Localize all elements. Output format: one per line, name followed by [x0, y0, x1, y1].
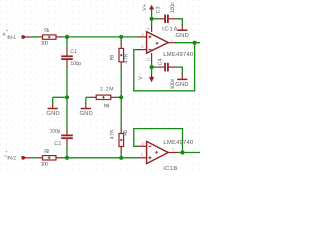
wire R4 left to gnd2 — [86, 96, 91, 98]
pin dot IN-1 — [21, 35, 25, 39]
junction V+ node — [150, 17, 154, 21]
wire IN-2 to R2 — [32, 157, 39, 159]
capacitor C2 pins — [66, 129, 68, 134]
svg-text:LME49740: LME49740 — [163, 51, 194, 58]
op-amp IC1A pin4 — [151, 25, 153, 32]
svg-text:100p: 100p — [70, 61, 81, 67]
wire V- node to C4 — [152, 66, 158, 68]
svg-text:GND: GND — [176, 32, 189, 39]
svg-text:IN-2: IN-2 — [7, 156, 16, 162]
wires green group — [32, 12, 200, 158]
op-amp IC1A pin1 — [168, 42, 175, 44]
junction gnd rail — [65, 95, 69, 99]
resistor R2 pins — [38, 157, 42, 159]
pin dot IN-2 — [21, 156, 25, 160]
pin IN-2 — [23, 157, 32, 159]
V+ stub — [151, 9, 153, 12]
wire gnd rail left — [53, 96, 67, 98]
svg-text:47K: 47K — [124, 53, 130, 64]
ground gnd1 bar — [48, 108, 58, 110]
svg-text:LME49740: LME49740 — [163, 139, 194, 146]
wire R3 top pin — [120, 37, 122, 41]
svg-text:IC1A: IC1A — [162, 25, 177, 32]
junction R4 node — [119, 95, 123, 99]
wire gnd2 stub — [85, 97, 87, 104]
svg-text:100: 100 — [41, 41, 48, 47]
svg-text:100n: 100n — [170, 2, 176, 13]
wire rail node down to C2 — [66, 97, 68, 129]
wire node A down to C1 — [66, 37, 68, 48]
resistor R5 — [119, 134, 124, 147]
resistor R5 pins — [120, 128, 122, 133]
svg-text:R4: R4 — [104, 104, 110, 110]
svg-text:47K: 47K — [109, 129, 115, 140]
capacitor C2 — [61, 135, 73, 140]
svg-text:C3: C3 — [156, 6, 162, 13]
capacitor C3 pins — [159, 18, 164, 20]
pin IN-1 — [23, 36, 32, 38]
junction V- node — [150, 65, 154, 69]
svg-text:V+: V+ — [142, 4, 148, 11]
svg-text:GND: GND — [175, 81, 188, 88]
ground gnd4 bar — [177, 78, 187, 80]
wire IN-1 to R1 — [32, 36, 39, 38]
junction output B — [180, 150, 184, 154]
svg-text:R3: R3 — [110, 55, 116, 61]
resistor R3 pins — [120, 41, 122, 49]
svg-text:C2: C2 — [54, 141, 61, 147]
resistor R1 — [43, 35, 57, 39]
wire C1 bottom to gnd rail node — [66, 66, 68, 97]
svg-text:C1: C1 — [70, 49, 77, 55]
junction node A — [65, 35, 69, 39]
svg-text:100: 100 — [41, 162, 48, 168]
gnd2 stub — [85, 103, 87, 107]
junction R3 top — [119, 35, 123, 39]
supply V- symbol — [149, 77, 154, 83]
svg-text:100p: 100p — [50, 129, 61, 135]
gnd4 stub — [181, 74, 183, 79]
resistor R3 — [119, 48, 124, 62]
junction node B — [65, 156, 69, 160]
wire R4 right pin — [117, 96, 121, 98]
wire output A — [175, 42, 200, 44]
supply V+ symbol — [149, 5, 154, 10]
svg-text:V-: V- — [138, 74, 144, 80]
capacitor C1 — [61, 55, 73, 60]
svg-text:C4: C4 — [158, 58, 164, 65]
capacitor C4 — [164, 63, 169, 72]
wire V+ node to C3 — [152, 18, 160, 20]
op-amp IC1A pin2 — [137, 49, 147, 51]
svg-text:IC1B: IC1B — [163, 165, 177, 172]
wire gnd1 stub — [52, 97, 54, 104]
wire pin11 to V- node — [151, 61, 153, 67]
op-amp U IC1A — [147, 32, 169, 54]
wire C4 right to gnd4 — [176, 67, 182, 74]
svg-text:R5: R5 — [123, 130, 129, 136]
wire feedback B from pin6 — [134, 129, 183, 153]
wire C2 bottom to node B — [66, 146, 68, 158]
capacitor C4 pins — [158, 66, 165, 68]
junction output A — [193, 41, 197, 45]
op-amp IC1A pin3 — [137, 36, 147, 38]
wire feedback A from pin2 — [134, 43, 195, 91]
resistor R2 — [43, 156, 57, 160]
maroon pin stubs — [23, 9, 182, 158]
wire R1 to IC1A pin3 — [61, 36, 137, 38]
wire V+ down to node — [151, 12, 153, 19]
wire C3 right to gnd3 — [176, 19, 182, 26]
svg-text:IN-1: IN-1 — [7, 35, 16, 41]
op-amp IC1B pin5 — [138, 157, 147, 159]
ground gnd3 bar — [177, 29, 187, 31]
V- stub — [151, 74, 153, 77]
op-amp IC1B pin6 — [138, 145, 147, 147]
op-amp IC1A pin11 — [151, 53, 153, 61]
wire output B — [177, 152, 200, 154]
capacitor C3 — [164, 15, 169, 24]
svg-text:2.2M: 2.2M — [100, 86, 114, 92]
svg-text:R1: R1 — [44, 28, 49, 34]
resistor R4 pins — [90, 96, 96, 98]
svg-text:R2: R2 — [44, 149, 49, 155]
svg-text:GND: GND — [80, 110, 93, 117]
resistor R4 — [96, 95, 111, 99]
wire V- node to symbol — [151, 67, 153, 74]
wire R5 bottom to node — [120, 152, 122, 157]
gnd3 stub — [181, 25, 183, 29]
gnd1 stub — [52, 103, 54, 107]
svg-text:GND: GND — [46, 110, 59, 117]
wire R4 node down to R5 — [120, 97, 122, 128]
capacitor C1 pins — [66, 48, 68, 56]
op-amp IC1B pin7 — [168, 152, 177, 154]
svg-text:11: 11 — [146, 56, 151, 61]
resistor R1 pins — [38, 36, 42, 38]
wire R2 to IC1B pin5 — [61, 157, 138, 159]
wire R3 bottom to R4 node — [120, 67, 122, 97]
junction R5 bottom — [119, 156, 123, 160]
wire V+ node to pin4 — [151, 19, 153, 26]
ground gnd2 bar — [81, 108, 91, 110]
op-amp U IC1B — [147, 141, 169, 163]
